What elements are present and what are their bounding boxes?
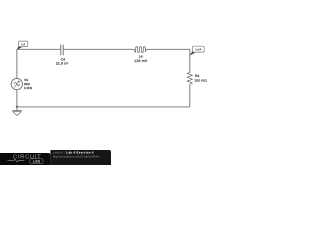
wire right vertical (corner to resistor) [189, 49, 191, 72]
wire bottom rail [17, 106, 190, 108]
svg-text:100 mΩ: 100 mΩ [194, 79, 207, 83]
svg-text:in4: in4 [21, 42, 26, 46]
wire top rail right segment [147, 48, 190, 50]
svg-text:1 kHz: 1 kHz [24, 86, 33, 90]
svg-text:out4: out4 [195, 48, 202, 52]
wire top rail left segment [17, 48, 61, 50]
wire top rail middle segment [64, 48, 134, 50]
svg-text:http://circuitlab.com/c15Yqb2u: http://circuitlab.com/c15Yqb2uSR4kv [53, 155, 101, 159]
wire left vertical (top corner to source) [16, 49, 18, 78]
svg-text:LAB: LAB [33, 160, 41, 164]
svg-text:R4: R4 [195, 74, 199, 78]
svg-text:128 mH: 128 mH [134, 59, 147, 63]
voltage source V4 [11, 78, 32, 90]
CircuitLab watermark logo [0, 153, 50, 165]
svg-text:L4: L4 [139, 55, 143, 59]
watermark caption [50, 150, 111, 165]
svg-text:22.9 nF: 22.9 nF [56, 62, 69, 66]
junction node [16, 106, 18, 108]
capacitor C4 [56, 45, 69, 66]
wire right vertical (resistor to bottom rail) [189, 84, 191, 107]
node label out4 [190, 46, 204, 55]
resistor R4 [187, 72, 207, 84]
inductor L4 [134, 47, 148, 63]
ground [12, 107, 22, 116]
wire left vertical (source to junction) [16, 90, 18, 107]
node label in4 [17, 41, 28, 50]
